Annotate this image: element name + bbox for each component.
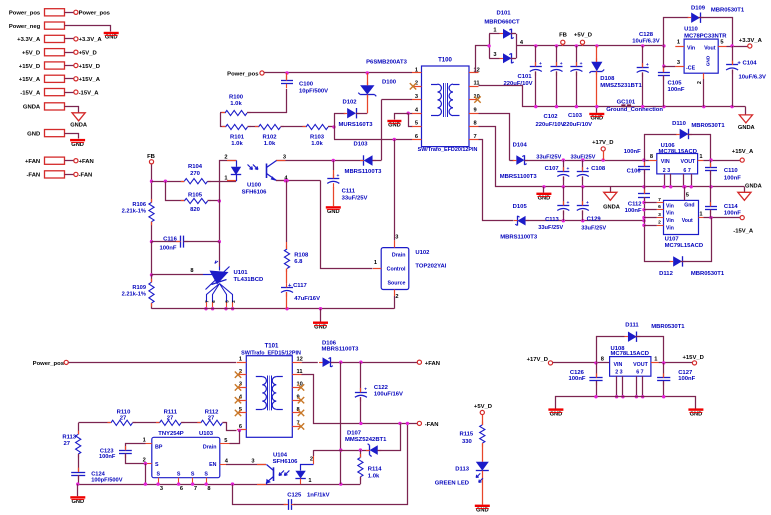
regulator U110 MC78PC33NTR (675, 27, 727, 84)
capacitor C122 (355, 362, 403, 423)
svg-text:1: 1 (677, 40, 680, 46)
wire T100 pin9 to D104 (479, 114, 510, 161)
no-connect X T100 pin10 (474, 96, 480, 102)
connector pad Power_pos (9, 9, 111, 17)
svg-text:3: 3 (395, 235, 398, 241)
svg-text:Power_pos: Power_pos (227, 71, 259, 77)
svg-text:GNDA: GNDA (745, 183, 762, 189)
svg-text:U101: U101 (234, 270, 249, 276)
no-connect X T101 right pin10 (298, 384, 304, 390)
resistor R112 (181, 410, 226, 426)
svg-text:MBR0530T1: MBR0530T1 (691, 123, 725, 129)
no-connect X T101 right pin9 (298, 397, 304, 403)
svg-text:+: + (646, 63, 649, 68)
svg-text:C114: C114 (724, 204, 738, 210)
svg-text:GNDA: GNDA (603, 204, 620, 210)
svg-text:GREEN LED: GREEN LED (435, 481, 469, 487)
svg-text:+15V_A: +15V_A (19, 77, 41, 83)
svg-text:-FAN: -FAN (425, 422, 439, 428)
wire T100 pin12 to D101 (476, 46, 490, 73)
wire T100 pin7 to D105 (479, 140, 514, 221)
svg-text:D112: D112 (659, 271, 673, 277)
svg-text:+: + (567, 201, 570, 206)
wire drain net (primary) (334, 138, 412, 241)
capacitor C102 (535, 46, 564, 128)
ground GND (U108 right) (688, 408, 703, 410)
regulator U107 MC79L15ACD (657, 187, 704, 249)
connector pad +15V_D (19, 62, 100, 70)
svg-text:D102: D102 (342, 99, 357, 105)
no-connect X T101 left pin4 (235, 397, 241, 403)
wire R101-R102 (248, 126, 259, 128)
wire U107 out / -15V_A (703, 216, 740, 219)
svg-text:Vin: Vin (666, 218, 674, 224)
ground GNDA (mid-left) (603, 187, 620, 211)
resistor R108 (284, 181, 309, 283)
svg-text:S: S (177, 471, 181, 477)
svg-text:GND: GND (706, 55, 712, 66)
svg-text:1.0k: 1.0k (368, 473, 380, 479)
net tie GC101 Ground_Connection (606, 100, 663, 113)
svg-text:+17V_D: +17V_D (592, 140, 613, 146)
wire U110 pin2 to ground (703, 79, 705, 107)
terminal +17V_D (bottom) (527, 357, 610, 365)
svg-text:-FAN: -FAN (79, 173, 93, 179)
T100 right pins 7-12 (469, 67, 480, 139)
svg-text:3: 3 (160, 486, 163, 492)
svg-text:C103: C103 (568, 113, 583, 119)
svg-text:+15V_D: +15V_D (19, 64, 40, 70)
svg-text:MBRS1100T3: MBRS1100T3 (500, 174, 538, 180)
svg-text:Power_neg: Power_neg (9, 24, 41, 30)
svg-text:6: 6 (180, 486, 183, 492)
svg-text:100nF: 100nF (724, 211, 741, 217)
svg-text:SFH6106: SFH6106 (273, 459, 299, 465)
svg-text:GNDA: GNDA (738, 125, 755, 131)
svg-text:R103: R103 (310, 134, 325, 140)
capacitor C105 (658, 68, 685, 107)
svg-text:Vout: Vout (682, 218, 693, 224)
svg-text:+FAN: +FAN (25, 159, 40, 165)
svg-text:+ C104: + C104 (737, 60, 757, 66)
svg-text:33uF/25V: 33uF/25V (581, 225, 606, 231)
wire U108 ground rail (556, 395, 696, 409)
svg-text:1: 1 (374, 260, 377, 266)
svg-text:3: 3 (493, 52, 496, 58)
svg-text:100nF: 100nF (678, 376, 695, 382)
svg-text:R113: R113 (62, 435, 76, 441)
port +3.3V_A (739, 38, 763, 48)
terminal +17V_D (mid) (592, 140, 613, 160)
port +FAN (417, 360, 440, 367)
svg-text:C101: C101 (517, 74, 532, 80)
svg-text:+: + (586, 167, 589, 172)
wire U110 output / +3.3V_A (727, 44, 748, 47)
svg-text:270: 270 (190, 171, 201, 177)
terminal FB (top) (559, 33, 567, 46)
svg-text:Power_pos: Power_pos (33, 361, 65, 367)
svg-text:MMSZ5231BT1: MMSZ5231BT1 (600, 83, 642, 89)
svg-text:1: 1 (699, 212, 702, 218)
wire C125 branch (233, 424, 408, 510)
diode D112 MBR0530T1 (645, 218, 725, 277)
svg-text:C107: C107 (545, 166, 560, 172)
svg-text:12: 12 (297, 357, 303, 363)
resistor R104 (152, 164, 237, 184)
wire analog ground rail (15V) (479, 127, 745, 189)
svg-text:Vin: Vin (666, 211, 674, 217)
wire U107 input bracket (642, 201, 657, 227)
svg-text:100pF/500V: 100pF/500V (91, 477, 123, 483)
T101 left pins (237, 357, 246, 430)
svg-text:Vin: Vin (666, 225, 674, 231)
svg-text:GNDA: GNDA (70, 123, 87, 129)
svg-text:C100: C100 (299, 81, 314, 87)
wire +FAN to D107 vertical (339, 362, 342, 484)
svg-text:SW/Trafo_EFD20/12PIN: SW/Trafo_EFD20/12PIN (418, 147, 478, 153)
svg-text:+3.3V_A: +3.3V_A (739, 38, 763, 44)
svg-text:8: 8 (650, 154, 653, 160)
svg-text:VOUT: VOUT (633, 362, 649, 368)
svg-text:FB: FB (559, 33, 567, 39)
switcher IC U102 TOP202YAI (373, 235, 447, 309)
svg-text:2 3: 2 3 (615, 370, 622, 376)
svg-text:R114: R114 (368, 467, 382, 473)
svg-text:3: 3 (677, 60, 680, 66)
svg-text:100nF: 100nF (99, 454, 116, 460)
svg-text:R108: R108 (294, 252, 309, 258)
svg-text:7: 7 (658, 197, 661, 203)
svg-text:D104: D104 (513, 142, 528, 148)
svg-text:6: 6 (415, 134, 418, 140)
zener D108 MMSZ5231BT1 (589, 46, 642, 107)
svg-text:D106: D106 (322, 340, 337, 346)
wire bias winding / D103 cathode net (276, 159, 364, 162)
svg-text:C122: C122 (374, 385, 389, 391)
svg-text:TNY254P: TNY254P (158, 431, 184, 437)
wire T100 pin3 to D103 anode (382, 100, 413, 161)
ground GND (fan section) (70, 484, 85, 505)
resistor R106 (122, 199, 154, 225)
svg-text:47uF/16V: 47uF/16V (294, 296, 320, 302)
svg-text:10uF/6.3V: 10uF/6.3V (739, 74, 767, 80)
svg-text:GND: GND (27, 131, 40, 137)
svg-text:Power_pos: Power_pos (79, 11, 111, 17)
U106 ground pins (662, 174, 693, 189)
svg-text:C128: C128 (639, 32, 654, 38)
svg-text:27: 27 (167, 415, 174, 421)
no-connect X T101 left pin3 (235, 384, 241, 390)
svg-text:2.21k-1%: 2.21k-1% (122, 209, 146, 215)
svg-text:S: S (157, 471, 161, 477)
diode D110 MBR0530T1 (644, 121, 725, 160)
svg-text:MMSZ5242BT1: MMSZ5242BT1 (345, 437, 387, 443)
wire 5V ground rail (479, 86, 746, 109)
svg-text:R105: R105 (188, 192, 203, 198)
svg-text:1: 1 (308, 478, 311, 484)
resistor R114 (358, 450, 382, 484)
svg-text:220uF/10V: 220uF/10V (563, 122, 592, 128)
svg-text:C113: C113 (545, 217, 559, 223)
svg-text:+5V_D: +5V_D (22, 51, 40, 57)
node junction dots on Power_pos rail (285, 71, 369, 74)
svg-text:+FAN: +FAN (79, 159, 94, 165)
svg-text:27: 27 (120, 415, 127, 421)
svg-text:6: 6 (658, 204, 661, 210)
capacitor C108 (571, 155, 606, 187)
svg-text:1.0k: 1.0k (264, 141, 276, 147)
svg-text:33uF/25V: 33uF/25V (571, 155, 596, 161)
connector pad Power_neg (9, 22, 119, 41)
svg-text:C112: C112 (628, 201, 642, 207)
svg-text:D103: D103 (353, 141, 368, 147)
wire T101 pin12 / +FAN (302, 362, 318, 364)
svg-text:VIN: VIN (661, 159, 670, 165)
capacitor C117 (281, 283, 320, 309)
wire U108 out / +15V_D (659, 361, 693, 364)
ground GND (15V mid) (536, 187, 551, 202)
no-connect X T101 left pin2 (235, 372, 241, 378)
no-connect X T101 left pin5 (235, 410, 241, 416)
svg-text:R102: R102 (262, 134, 277, 140)
svg-text:+5V_D: +5V_D (79, 51, 97, 57)
svg-text:7: 7 (194, 486, 197, 492)
svg-text:+: + (337, 174, 340, 179)
capacitor C100 (281, 73, 328, 113)
resistor R110 (79, 410, 137, 426)
svg-text:TL431BCD: TL431BCD (234, 277, 264, 283)
regulator U108 MC78L15ACD (601, 346, 659, 376)
svg-text:820: 820 (190, 207, 201, 213)
svg-text:GND: GND (327, 209, 340, 215)
ground GNDA (mid-right) (738, 183, 762, 200)
TVS diode D100 P6SMB200AT3 (358, 59, 407, 113)
svg-text:-15V_A: -15V_A (20, 90, 41, 96)
svg-text:7: 7 (474, 134, 477, 140)
svg-text:2: 2 (395, 294, 398, 300)
U108 ground pins (615, 376, 645, 398)
resistor R109 (122, 279, 154, 307)
svg-text:MC79L15ACD: MC79L15ACD (665, 243, 704, 249)
svg-text:C129: C129 (587, 216, 602, 222)
svg-text:MBRS1100T3: MBRS1100T3 (500, 235, 538, 241)
svg-text:C108: C108 (591, 166, 606, 172)
svg-text:220uF/10V: 220uF/10V (503, 81, 532, 87)
diode D103 MBRS1100T3 (345, 141, 383, 175)
svg-text:Drain: Drain (392, 252, 406, 258)
svg-text:C110: C110 (724, 168, 738, 174)
shunt regulator U101 TL431BCD (152, 261, 264, 311)
svg-text:TOP202YAI: TOP202YAI (415, 263, 446, 269)
svg-text:+5V_D: +5V_D (474, 404, 492, 410)
T101 right pins (292, 357, 303, 427)
svg-text:C106: C106 (627, 169, 642, 175)
svg-text:2: 2 (224, 154, 227, 160)
svg-text:+: + (580, 62, 583, 67)
svg-text:R100: R100 (229, 94, 244, 100)
svg-text:Gnd: Gnd (684, 202, 694, 208)
connector pad GNDA (23, 103, 87, 129)
svg-text:MBRS1100T3: MBRS1100T3 (345, 169, 383, 175)
svg-text:D107: D107 (347, 431, 362, 437)
svg-text:10uF/6.3V: 10uF/6.3V (632, 39, 660, 45)
ground GNDA (3.3V) (738, 107, 755, 131)
svg-text:MBR0530T1: MBR0530T1 (651, 324, 685, 330)
svg-text:3: 3 (415, 94, 418, 100)
ground GND (C111) (326, 206, 341, 208)
svg-text:U103: U103 (199, 431, 214, 437)
svg-text:6 7: 6 7 (683, 168, 690, 174)
wire U100 pin4 to U102 control (276, 179, 373, 269)
svg-text:C102: C102 (543, 114, 558, 120)
svg-text:5: 5 (415, 121, 418, 127)
resistor R111 (133, 410, 185, 426)
diode D102 MURS160T3 (334, 99, 373, 128)
svg-text:Ground_Connection: Ground_Connection (606, 107, 663, 113)
svg-text:U110: U110 (684, 27, 698, 33)
ground GND (5V rail) (589, 107, 604, 122)
capacitor C101 (503, 46, 542, 107)
svg-text:+: + (567, 167, 570, 172)
no-connect X T101 right pin8 (298, 410, 304, 416)
svg-text:GND: GND (71, 499, 84, 505)
svg-text:33uF/25V: 33uF/25V (342, 195, 368, 201)
ground GND (U108 left) (548, 408, 563, 410)
svg-text:T101: T101 (265, 343, 279, 350)
svg-text:+3.3V_A: +3.3V_A (79, 37, 103, 43)
svg-text:D105: D105 (513, 204, 528, 210)
optocoupler U100 SFH6106 (224, 154, 288, 195)
svg-text:MBRD660CT: MBRD660CT (484, 19, 520, 25)
no-connect X T100 pin2 (410, 83, 416, 89)
diode D104 MBRS1100T3 (500, 142, 564, 180)
svg-text:100nF: 100nF (160, 246, 177, 252)
svg-text:100uF/16V: 100uF/16V (374, 391, 403, 397)
svg-text:D110: D110 (672, 121, 686, 127)
wire R112 to T101 pin6 / U103 drain (223, 423, 242, 444)
svg-text:Vin: Vin (687, 46, 695, 52)
svg-text:C116: C116 (163, 236, 177, 242)
svg-text:-15V_A: -15V_A (79, 90, 100, 96)
svg-text:+15V_A: +15V_A (732, 149, 754, 155)
svg-text:R101: R101 (230, 134, 245, 140)
svg-text:10pF/500V: 10pF/500V (299, 88, 328, 94)
svg-text:5: 5 (224, 438, 227, 444)
svg-text:1: 1 (699, 154, 702, 160)
capacitor C103 (563, 46, 592, 128)
capacitor C110 (705, 160, 741, 187)
svg-text:1.0k: 1.0k (231, 141, 243, 147)
svg-text:1.0k: 1.0k (311, 141, 323, 147)
svg-text:3: 3 (251, 458, 254, 464)
svg-text:27: 27 (208, 415, 215, 421)
resistor R115 (459, 421, 484, 461)
svg-text:6 7: 6 7 (636, 370, 643, 376)
svg-text:VOUT: VOUT (681, 159, 697, 165)
capacitor C106 (624, 149, 650, 187)
svg-text:100nF: 100nF (724, 176, 741, 182)
ground GND (LED) (475, 505, 490, 507)
svg-text:C125: C125 (287, 493, 302, 499)
capacitor C124 (71, 468, 123, 485)
svg-text:Source: Source (387, 281, 405, 287)
svg-text:U100: U100 (247, 183, 262, 189)
svg-text:12: 12 (474, 67, 480, 73)
terminal FB (147, 154, 155, 164)
optocoupler U104 SFH6106 (257, 450, 314, 484)
svg-text:+: + (586, 201, 589, 206)
svg-text:+: + (560, 62, 563, 67)
svg-text:MBR0530T1: MBR0530T1 (711, 8, 745, 14)
svg-text:8: 8 (190, 268, 193, 274)
svg-text:6.8: 6.8 (294, 259, 303, 265)
connector pad +5V_D (22, 49, 97, 57)
capacitor C104 (726, 46, 766, 107)
svg-text:D100: D100 (382, 79, 397, 85)
resistor R102 (255, 124, 284, 147)
connector pad +15V_A (19, 75, 101, 83)
svg-text:U107: U107 (665, 236, 680, 242)
svg-text:R115: R115 (459, 432, 473, 438)
svg-text:8: 8 (601, 356, 604, 362)
svg-text:Control: Control (387, 267, 406, 273)
capacitor C107 (536, 155, 569, 187)
svg-text:D108: D108 (600, 76, 615, 82)
svg-text:9: 9 (474, 108, 477, 114)
svg-text:2.21k-1%: 2.21k-1% (122, 292, 146, 298)
svg-text:VIN: VIN (614, 362, 623, 368)
svg-text:EN: EN (209, 462, 217, 468)
zener D107 MMSZ5242BT1 (314, 424, 401, 457)
svg-text:100nF: 100nF (668, 87, 685, 93)
capacitor C127 (657, 363, 695, 397)
no-connect X T101 right pin7 (298, 423, 304, 429)
svg-text:+15V_A: +15V_A (79, 77, 101, 83)
port +15V_D (682, 355, 703, 365)
svg-text:-CE: -CE (686, 65, 696, 71)
svg-text:T100: T100 (438, 56, 452, 63)
svg-text:D111: D111 (625, 322, 639, 328)
svg-text:MC78PC33NTR: MC78PC33NTR (684, 33, 727, 39)
svg-text:P6SMB200AT3: P6SMB200AT3 (366, 59, 407, 65)
svg-text:33uF/25V: 33uF/25V (536, 155, 561, 161)
svg-text:1: 1 (224, 175, 227, 181)
svg-text:D101: D101 (496, 11, 511, 17)
connector pad -FAN (26, 171, 92, 179)
svg-text:Vin: Vin (666, 203, 674, 209)
wire U110 input bracket (662, 46, 675, 72)
wire +17V raw rail (562, 158, 649, 161)
svg-text:+17V_D: +17V_D (527, 357, 548, 363)
node clamp junction (332, 113, 335, 139)
svg-text:1: 1 (493, 27, 496, 33)
svg-text:1: 1 (415, 67, 418, 73)
wire FB node vertical (150, 165, 153, 309)
ground GND (T100 pins 4,5) (387, 112, 412, 129)
LED D113 GREEN (435, 462, 489, 505)
svg-text:-FAN: -FAN (26, 173, 40, 179)
svg-text:5: 5 (686, 192, 689, 198)
svg-text:+: + (539, 62, 542, 67)
svg-text:S: S (204, 471, 208, 477)
ground GND (TOP202 source) (313, 309, 328, 331)
port Power_pos (primary rail) (227, 71, 412, 77)
svg-text:+15V_D: +15V_D (79, 64, 100, 70)
connector pad -15V_A (20, 89, 99, 97)
svg-text:100nF: 100nF (569, 376, 586, 382)
capacitor C111 (327, 161, 367, 207)
wire U100 pin2 to R105/TL431 cathode (218, 161, 237, 267)
